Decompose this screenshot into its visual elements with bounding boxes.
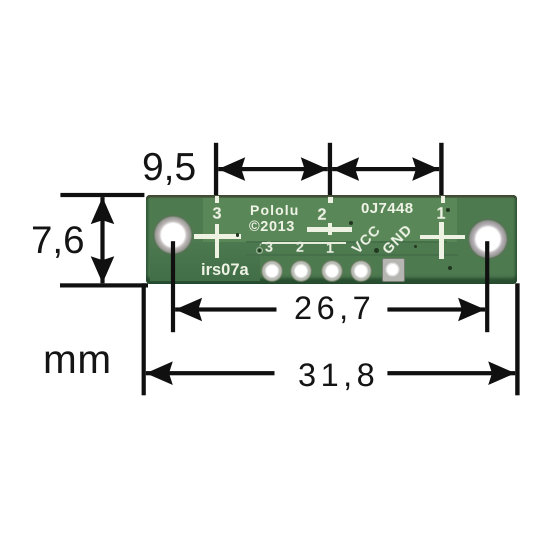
silkscreen text ©2013 — [249, 219, 295, 234]
dimension text 7,6 — [31, 222, 85, 261]
fiducial cross pin 2 (middle) — [307, 227, 352, 232]
through-hole pad GND (square) — [382, 258, 405, 282]
mounting hole right — [467, 218, 509, 260]
through-hole pad 1 — [321, 260, 343, 282]
through-hole pad 2 — [290, 260, 312, 282]
via dot inside silkscreen loop — [258, 249, 261, 252]
trace line upper — [246, 241, 447, 243]
copper pour lower-left region — [150, 242, 260, 281]
mounting hole left — [152, 214, 194, 256]
dimension line 31,8 right segment with arrowhead — [387, 361, 515, 385]
silkscreen label 2 (big, above middle cross) — [317, 207, 326, 224]
through-hole pad VCC — [350, 260, 372, 282]
via dot lower left of right hole — [448, 266, 452, 270]
silkscreen tick top edge pin 2 — [328, 197, 333, 203]
GND pad drill hole — [387, 264, 398, 275]
pcb board (green carrier PCB, photo) — [146, 195, 517, 284]
copper pour lighter region — [203, 198, 457, 243]
extension line board left edge (31,8) — [142, 283, 146, 395]
extension line board top (7,6) — [60, 193, 144, 197]
dimension text 26,7 — [294, 292, 375, 325]
via dot right of GND — [414, 245, 418, 249]
silkscreen pin number 3 (above pad) — [265, 241, 273, 256]
silkscreen text Pololu — [250, 202, 299, 216]
dimension line 9,5 span pin3-pin2 with arrowheads — [218, 157, 328, 181]
silkscreen label 3 (big, above left cross) — [212, 205, 221, 222]
dimension text 9,5 — [142, 147, 196, 186]
via dot near cross 3 right arm — [236, 233, 240, 237]
silkscreen text irs07a — [200, 262, 248, 279]
dimension line 31,8 left segment with arrowhead — [146, 361, 275, 385]
trace line lower — [246, 254, 458, 256]
silkscreen label 1 (big, above right cross) — [436, 206, 445, 223]
dimension line 7,6 vertical with arrowheads — [91, 197, 115, 283]
dimension text 31,8 — [297, 358, 378, 391]
silkscreen curve joining loop to line — [259, 243, 264, 248]
extension line left hole centre (26,7) — [171, 241, 175, 332]
silkscreen tick top edge pin 1 — [441, 196, 445, 203]
extension line pin 3 (top, x=216) — [214, 143, 218, 195]
fiducial cross pin 1 (right) — [420, 235, 465, 240]
via dot between VCC and GND — [374, 248, 379, 253]
silkscreen tick top edge pin 3 — [215, 196, 220, 203]
extension line board bottom (7,6 / 31,8 corner) — [60, 283, 148, 287]
via dot near cross 2 right arm — [349, 221, 353, 225]
through-hole pad 3 — [261, 260, 283, 282]
silkscreen component outline line above pads — [262, 242, 346, 244]
silkscreen label VCC (rotated) — [349, 222, 383, 256]
silkscreen pin number 1 (above pad) — [326, 241, 334, 256]
extension line pin 2 (top, x=330) — [328, 143, 332, 195]
extension line board right edge (31,8) — [515, 283, 519, 395]
dimension line 9,5 span pin2-pin1 with arrowheads — [332, 157, 439, 181]
fiducial cross pin 3 (left) — [194, 234, 241, 239]
extension line pin 1 (top, x=441.4) — [439, 143, 443, 195]
dimension line 26,7 right segment with arrowhead — [387, 298, 485, 322]
extension line right hole centre (26,7) — [485, 241, 489, 332]
via dot near label 1 — [446, 208, 450, 212]
silkscreen loop around via (left end of outline) — [256, 247, 263, 254]
silkscreen label GND (rotated) — [380, 222, 415, 257]
silkscreen pin number 2 (above pad) — [295, 241, 303, 256]
dimension line 26,7 left segment with arrowhead — [175, 298, 276, 322]
silkscreen text 0J7448 — [361, 200, 413, 215]
unit label mm — [42, 338, 111, 379]
